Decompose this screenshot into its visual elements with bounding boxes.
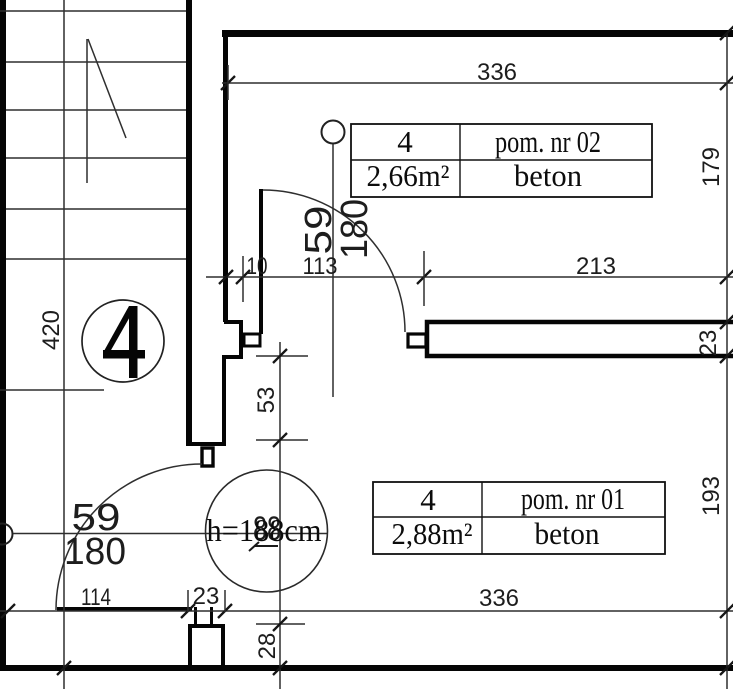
label: big room number 4 <box>103 306 145 378</box>
svg-text:53: 53 <box>253 387 280 414</box>
svg-text:10: 10 <box>247 253 268 280</box>
dimension extension y=624 <box>256 623 305 625</box>
dimension line bottom (114/23/336) <box>0 610 733 612</box>
dimension tick bottom x225 <box>218 604 232 618</box>
dimension tick mid 4 <box>720 270 733 284</box>
stair step line 4 <box>6 157 186 159</box>
dimension extension stub top-left <box>227 65 229 100</box>
wall: bottom pilaster left edge <box>188 624 192 667</box>
table: room 02 data box <box>351 124 652 197</box>
svg-text:h=188cm: h=188cm <box>207 512 322 548</box>
svg-text:28: 28 <box>254 633 281 660</box>
wall: central wall bottom cap <box>186 442 226 446</box>
door D2 frame tick right <box>210 607 213 626</box>
stair landing edge line <box>0 389 104 391</box>
dimension extension y=356 <box>256 355 308 357</box>
svg-text:420: 420 <box>38 310 65 350</box>
dimension tick right y356 <box>720 349 733 363</box>
dimension tick top-left <box>221 76 235 90</box>
node: room number circle 4 <box>82 300 164 382</box>
dimension tick bottom x188 <box>181 604 195 618</box>
dimension line middle (10/113/213) <box>206 276 733 278</box>
dimension tick right y33 <box>720 26 733 40</box>
svg-text:114: 114 <box>81 584 111 611</box>
dimension tick x280 y624 <box>273 617 287 631</box>
stair walk line vertical <box>63 0 65 689</box>
dimension line top (336) <box>222 82 733 84</box>
wall: stair right / central wall left edge <box>186 0 192 446</box>
door D1 axis circle <box>322 121 345 144</box>
door D2 axis circle <box>0 524 13 545</box>
door D2 frame tick left <box>194 607 197 626</box>
dimension tick mid 3 <box>417 270 431 284</box>
dimension extension line x=243 <box>242 256 244 302</box>
door D2 swing arc <box>56 464 202 610</box>
stair step line 6 <box>6 258 186 260</box>
svg-text:2,66m²: 2,66m² <box>367 158 450 193</box>
door D1 leaf (open) <box>259 189 263 334</box>
svg-text:pom. nr 02: pom. nr 02 <box>495 124 601 159</box>
wall: bottom exterior wall <box>0 665 733 671</box>
stair direction arrow shaft <box>86 39 88 183</box>
svg-text:180: 180 <box>334 199 376 259</box>
svg-text:179: 179 <box>698 147 725 187</box>
dimension extension bottom x188 <box>187 590 189 612</box>
svg-text:pom. nr 01: pom. nr 01 <box>521 481 625 516</box>
dimension tick mid 1 <box>219 270 233 284</box>
stair step line 5 <box>6 208 186 210</box>
dimension tick bottom x727 <box>720 604 733 618</box>
svg-text:beton: beton <box>535 516 600 551</box>
door D1 swing arc <box>263 190 405 332</box>
svg-text:213: 213 <box>576 253 616 280</box>
svg-text:23: 23 <box>695 330 722 357</box>
svg-text:113: 113 <box>303 253 338 280</box>
dimension tick x64 y668 <box>57 661 71 675</box>
dimension extension y=440 <box>256 439 308 441</box>
wall: left exterior wall <box>0 0 6 671</box>
door D2 axis line <box>13 533 327 535</box>
wall: central wall right edge upper <box>223 30 228 322</box>
door D1 axis line <box>332 144 334 397</box>
dimension tick x280 y668 <box>273 661 287 675</box>
wall: bottom pilaster right edge <box>221 624 225 667</box>
svg-text:2,88m²: 2,88m² <box>392 516 473 551</box>
svg-text:193: 193 <box>698 476 725 516</box>
wall: central wall jamb step bottom <box>222 355 243 359</box>
wall: central wall right edge lower <box>222 355 226 446</box>
dimension line vertical x=280 (53/28) <box>279 342 281 689</box>
stair step line 1 <box>0 10 186 12</box>
small slash under headroom text <box>249 542 259 551</box>
door D1 jamb stub on beam <box>408 334 426 347</box>
dimension extension bottom x225 <box>224 590 226 612</box>
svg-text:180: 180 <box>64 531 126 573</box>
dimension tick bottom x8 <box>1 604 15 618</box>
stair step line 3 <box>6 109 186 111</box>
dimension tick right y668 <box>720 661 733 675</box>
dimension tick x280 y356 <box>273 349 287 363</box>
wall: central wall jamb step right <box>239 320 243 358</box>
dimension tick mid 2 <box>236 270 250 284</box>
svg-text:23: 23 <box>193 583 220 610</box>
svg-text:4: 4 <box>397 124 413 159</box>
table: room 01 data box <box>373 482 665 554</box>
dimension extension line x=424 <box>423 251 425 306</box>
wall: top exterior wall <box>222 30 733 37</box>
dimension tick right y322 <box>720 315 733 329</box>
svg-text:336: 336 <box>477 59 517 86</box>
wall: beam between room 01 and room 02 <box>427 322 733 356</box>
door D2 threshold line <box>57 607 192 611</box>
node: headroom circle <box>206 470 328 592</box>
svg-text:4: 4 <box>420 482 436 517</box>
wall: bottom pilaster top cap <box>188 624 225 628</box>
svg-text:336: 336 <box>479 585 519 612</box>
door D1 jamb stub on central wall <box>244 334 260 346</box>
stair direction arrow diagonal <box>88 39 126 138</box>
stair step line 2 <box>6 61 186 63</box>
dimension tick x280 y440 <box>273 433 287 447</box>
dimension line right vertical (179/23/193) <box>726 33 728 689</box>
door D2 leaf stub below central wall <box>202 448 213 466</box>
tick under headroom text <box>254 545 278 547</box>
wall: central wall jamb step top <box>224 320 243 324</box>
svg-text:beton: beton <box>514 158 582 193</box>
dimension tick top-right <box>720 76 733 90</box>
